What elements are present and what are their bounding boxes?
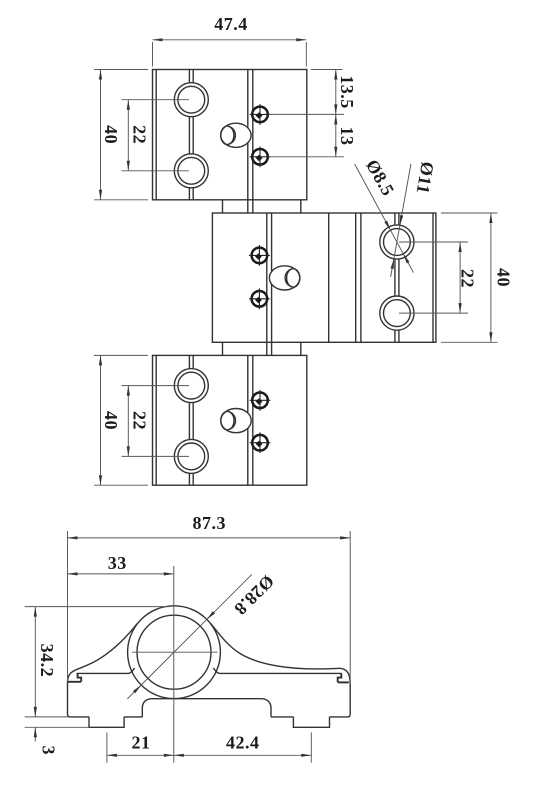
- leader diameter 11: [391, 160, 438, 277]
- bracket left lip hook: [68, 673, 82, 681]
- dimension 42.4: [174, 732, 311, 762]
- pin boss oval top block: [221, 123, 251, 147]
- leader diameter 8.5: [355, 156, 414, 273]
- middle leaf block outline: [212, 213, 436, 342]
- bracket section outline: [68, 624, 351, 717]
- bracket right foot: [293, 717, 329, 727]
- middle block inner rail lines: [267, 213, 433, 356]
- svg-text:Ø8.5: Ø8.5: [362, 156, 399, 199]
- svg-text:47.4: 47.4: [214, 14, 248, 34]
- leader diameter 28.8: [127, 571, 278, 699]
- dimension 22 left of top block: [122, 100, 190, 171]
- hole top block upper: [174, 83, 208, 117]
- svg-text:13.5: 13.5: [337, 75, 357, 109]
- dimension 33: [68, 553, 174, 574]
- hole bottom block upper: [174, 369, 208, 403]
- dimension 47.4 top: [153, 14, 307, 67]
- screw bottom block upper: [250, 390, 271, 411]
- svg-text:22: 22: [130, 411, 150, 430]
- hole bottom block lower: [174, 439, 208, 473]
- screw middle block upper: [249, 245, 270, 266]
- dimension 87.3: [68, 513, 351, 685]
- screw middle block lower: [249, 288, 270, 309]
- svg-text:42.4: 42.4: [226, 732, 260, 752]
- bottom block inner rail lines: [156, 355, 253, 485]
- dimension 21: [107, 732, 174, 762]
- svg-text:22: 22: [130, 125, 150, 144]
- top block inner rail lines: [156, 70, 253, 213]
- svg-text:Ø28.8: Ø28.8: [230, 571, 278, 619]
- pin boss oval bottom block: [221, 409, 251, 433]
- svg-text:33: 33: [108, 553, 127, 573]
- hole middle block upper: [380, 225, 414, 259]
- svg-text:Ø11: Ø11: [413, 160, 438, 195]
- svg-text:3: 3: [38, 745, 58, 755]
- dimension 40 right of middle block: [441, 213, 514, 342]
- dimension 22 left of bottom block: [122, 386, 190, 457]
- bracket bore outer circle: [128, 606, 221, 699]
- knuckle tab between top and middle block: [223, 200, 301, 213]
- screw top block lower: [250, 146, 271, 167]
- pin boss oval middle block: [269, 266, 299, 290]
- bottom leaf block outline: [153, 355, 307, 485]
- svg-text:21: 21: [132, 732, 151, 752]
- bracket bore inner circle: [137, 615, 211, 689]
- svg-text:40: 40: [101, 411, 121, 430]
- svg-text:87.3: 87.3: [193, 513, 227, 533]
- svg-text:22: 22: [457, 269, 477, 288]
- dimension 22 right of middle block: [399, 242, 477, 313]
- top leaf block outline: [153, 70, 307, 200]
- bracket left foot: [89, 717, 124, 727]
- svg-text:13: 13: [337, 127, 357, 146]
- svg-text:34.2: 34.2: [37, 644, 57, 678]
- dimension 40 left of bottom block: [94, 355, 148, 485]
- bracket right lip hook: [338, 673, 349, 682]
- svg-text:40: 40: [101, 125, 121, 144]
- dimension 40 left of top block: [94, 70, 148, 200]
- dimension 3 foot height: [25, 727, 90, 755]
- hole middle block lower: [380, 296, 414, 330]
- dimension 34.2: [25, 607, 170, 717]
- screw top block upper: [250, 104, 271, 125]
- svg-text:40: 40: [494, 268, 514, 287]
- hole top block lower: [174, 154, 208, 188]
- dimension 13 right of top block: [269, 114, 358, 156]
- screw bottom block lower: [250, 432, 271, 453]
- dimension 13.5 right of top block: [269, 70, 358, 115]
- bore centerlines: [132, 566, 218, 763]
- knuckle tab between middle and bottom block: [223, 342, 301, 355]
